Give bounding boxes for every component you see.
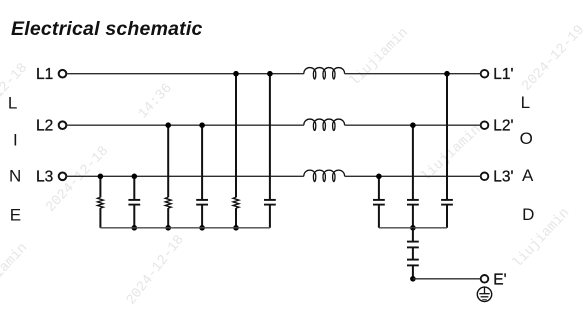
capacitor C1 [128,200,140,205]
svg-text:2024-12-19: 2024-12-19 [519,22,583,94]
node C3/L1 [267,71,273,77]
capacitor C3 [264,200,276,205]
watermark liujiamin right-middle [418,122,484,185]
wire L1 right [345,73,481,75]
terminal L2' [481,117,514,134]
wire branch C2 lower [201,205,203,228]
wire branch C2 upper [201,125,203,199]
watermark 2024-12-19 top-right [519,22,583,94]
svg-text:L: L [521,93,530,112]
svg-text:14:36: 14:36 [135,81,175,123]
wire branch C6 upper [446,74,448,200]
node R2/bus [165,225,171,231]
watermark 14:36 [135,81,175,123]
watermark liujiamin bottom-right [510,205,573,271]
node C1/L3 [132,174,138,180]
node C5/L2 [410,122,416,128]
wire branch C1 lower [133,205,135,228]
wire branch R1 upper [99,176,101,197]
svg-text:O: O [520,129,533,148]
svg-text:liujiamin: liujiamin [510,205,573,271]
node C6/L1 [444,71,450,77]
svg-text:E': E' [493,272,506,289]
node R3/L1 [233,71,239,77]
wire branch C1 upper [133,176,135,199]
svg-text:L: L [8,94,17,113]
wire branch R2 upper [167,125,169,197]
wire branch R3 lower [235,208,237,228]
label LOAD [520,93,535,224]
terminal E' [481,272,507,289]
wire left bus [100,227,270,229]
label LINE [8,94,21,225]
watermark 2024-12-18 bottom-center [123,232,187,308]
resistor R2 [165,197,171,208]
wire branch C4 upper [378,176,380,199]
wire L3 left [66,175,303,177]
capacitor C8 [407,260,419,266]
svg-text:L3: L3 [36,169,53,186]
svg-text:Electrical schematic: Electrical schematic [11,18,203,40]
node C2/bus [199,225,205,231]
wire right bus [379,227,447,229]
svg-text:D: D [522,205,534,224]
inductor L1 [304,68,345,79]
inductor L3 [304,170,345,181]
svg-text:L2: L2 [36,117,53,134]
watermark 2024-12-18 left-middle [43,143,112,215]
title [11,18,203,40]
terminal L2 [36,117,66,134]
wire to E' [413,278,481,280]
svg-text:L2': L2' [493,117,513,134]
node R3/bus [233,225,239,231]
node C1/bus [132,225,138,231]
watermark 2024-12-18 left-edge [0,60,31,132]
terminal L3 [36,169,66,186]
wire L2 left [66,124,303,126]
inductor L2 [304,119,345,130]
node R2/L2 [165,122,171,128]
svg-text:2024-12-18: 2024-12-18 [123,232,187,308]
wire L2 right [345,124,481,126]
wire L1 left [66,73,303,75]
capacitor C6 [441,200,453,205]
watermark liujiamin bottom-left [0,240,31,306]
svg-text:A: A [522,166,534,185]
wire series caps lower [412,265,414,278]
wire branch R1 lower [99,208,101,228]
capacitor C4 [373,200,385,205]
wire branch C5 upper [412,125,414,199]
capacitor C7 [407,242,419,248]
svg-text:L1: L1 [36,66,53,83]
svg-text:I: I [13,130,18,149]
terminal L3' [481,169,514,186]
terminal L1' [481,66,514,83]
svg-text:E: E [10,206,21,225]
svg-text:L1': L1' [493,66,513,83]
wire branch C5 lower [412,205,414,228]
watermark liujiamin top-center [347,25,412,90]
wire branch R3 upper [235,74,237,198]
svg-text:L3': L3' [493,169,513,186]
resistor R3 [233,197,239,208]
wire branch R2 lower [167,208,169,228]
node C5/bus [410,225,416,231]
node C4/L3 [376,174,382,180]
svg-text:liujiamin: liujiamin [0,240,31,306]
wire branch C4 lower [378,205,380,228]
terminal L1 [36,66,66,83]
resistor R1 [98,197,104,208]
wire L3 right [345,175,481,177]
wire branch C3 lower [269,205,271,228]
capacitor C2 [196,200,208,205]
node R1/L3 [98,174,104,180]
node E wire [410,276,416,282]
node C2/L2 [199,122,205,128]
wire series caps upper [412,228,414,241]
capacitor C5 [407,200,419,205]
wire branch C6 lower [446,205,448,228]
wire branch C3 upper [269,74,271,200]
svg-text:N: N [9,167,21,186]
ground earth symbol [477,287,491,301]
svg-text:liujiamin: liujiamin [347,25,412,90]
wire between C7 C8 [412,247,414,259]
